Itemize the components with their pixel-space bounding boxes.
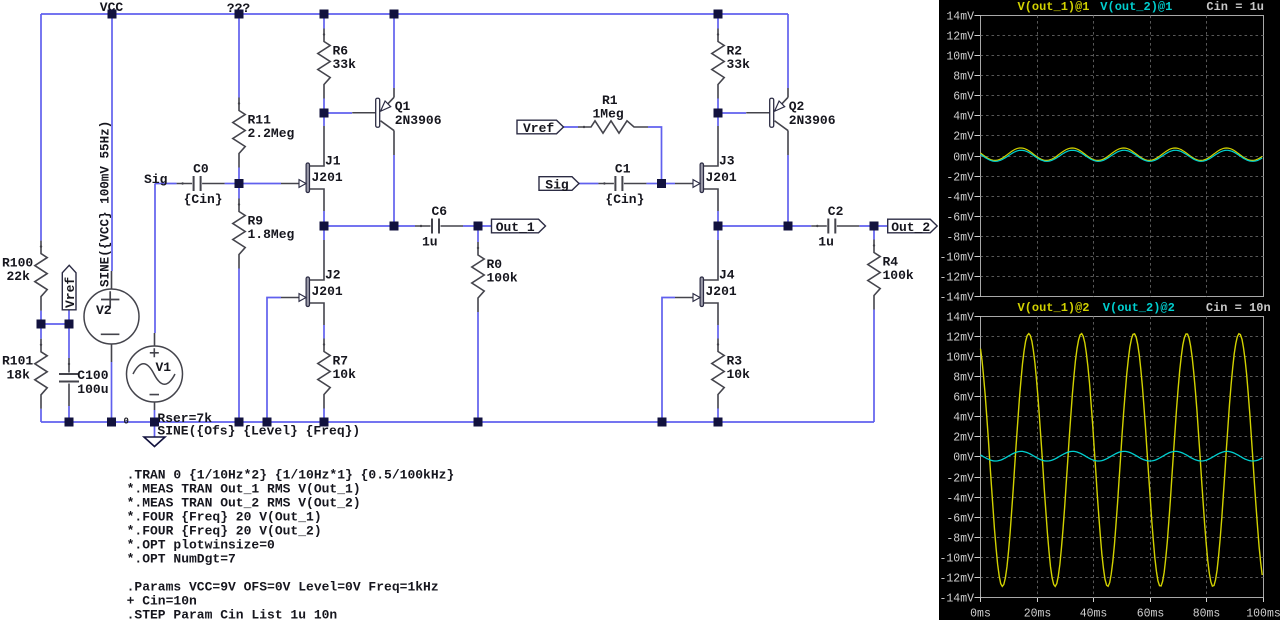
svg-text:80ms: 80ms [1193, 608, 1221, 620]
node J1 source / J2 drain [320, 222, 329, 231]
wire Q2 base [718, 112, 746, 114]
svg-text:33k: 33k [333, 57, 357, 72]
svg-text:J201: J201 [706, 284, 737, 299]
svg-text:100ms: 100ms [1246, 608, 1280, 620]
wire Sig corner to C0 and V1 [155, 184, 177, 334]
wire R4 bottom drop [873, 226, 875, 422]
wire Vref left flag stub [68, 310, 70, 324]
flag Vref (mid) [517, 120, 564, 134]
svg-text:-12mV: -12mV [939, 272, 974, 285]
node J3 source / J4 drain [714, 222, 723, 231]
capacitor C100 100u [68, 358, 70, 406]
wire C1 to node [646, 183, 661, 185]
svg-text:2mV: 2mV [953, 131, 974, 144]
svg-text:4mV: 4mV [953, 111, 974, 124]
trace V(out_2)@2 cyan ripple [981, 451, 1263, 461]
svg-text:.TRAN 0 {1/10Hz*2} {1/10Hz*1}: .TRAN 0 {1/10Hz*2} {1/10Hz*1} {0.5/100kH… [127, 467, 455, 482]
plot pane 2 border [981, 317, 1264, 598]
svg-text:-4mV: -4mV [946, 192, 974, 205]
resistor R0 100k [472, 242, 484, 312]
svg-text:*.OPT plotwinsize=0: *.OPT plotwinsize=0 [127, 537, 275, 552]
node Q1 collector / C6 [390, 222, 399, 231]
node R0 ground [474, 418, 483, 427]
wire J3 source to mid node [717, 211, 719, 226]
node C0 / R11 / R9 / J1 gate [235, 179, 244, 188]
svg-text:22k: 22k [7, 269, 31, 284]
svg-text:*.FOUR {Freq} 20 V(Out_1): *.FOUR {Freq} 20 V(Out_1) [127, 509, 322, 524]
wire J3 gate [662, 183, 676, 185]
resistor R9 1.8Meg [233, 199, 245, 269]
wire Q2 collector to mid rail [787, 155, 789, 226]
node C2 / Out_2 / R4 [870, 222, 879, 231]
svg-text:0mV: 0mV [953, 152, 974, 165]
node R3 ground [714, 418, 723, 427]
svg-text:10mV: 10mV [946, 352, 974, 365]
node rail / R2 [714, 10, 723, 19]
svg-text:C0: C0 [193, 161, 209, 176]
svg-text:-8mV: -8mV [946, 232, 974, 245]
node R100 / R101 [37, 320, 46, 329]
svg-text:C2: C2 [828, 204, 844, 219]
voltage source V2 SINE [111, 271, 113, 362]
svg-text:V(out_1)@2: V(out_1)@2 [1018, 301, 1090, 315]
resistor R4 100k [868, 240, 880, 310]
svg-text:Out_2: Out_2 [891, 220, 930, 235]
svg-text:-10mV: -10mV [939, 553, 974, 566]
wire R2 stubs / J3 drain [717, 14, 719, 126]
JFET J2 J201 [309, 240, 324, 325]
resistor R7 10k [318, 339, 330, 409]
wire J4 drain/source [717, 226, 719, 422]
svg-text:-10mV: -10mV [939, 252, 974, 265]
resistor R3 10k [712, 339, 724, 409]
node C100 ground [65, 418, 74, 427]
wire R0 drop [477, 226, 479, 422]
svg-text:100k: 100k [883, 268, 914, 283]
svg-text:1Meg: 1Meg [593, 106, 624, 121]
svg-text:Out_1: Out_1 [496, 220, 535, 235]
svg-text:Vref: Vref [63, 277, 78, 308]
svg-text:-6mV: -6mV [946, 513, 974, 526]
resistor R100 22k [35, 241, 47, 311]
svg-text:20ms: 20ms [1024, 608, 1052, 620]
svg-text:6mV: 6mV [953, 392, 974, 405]
capacitor C0 {Cin} [177, 183, 225, 185]
svg-text:Vref: Vref [523, 121, 554, 136]
node J2 gate ground [263, 418, 272, 427]
svg-text:-2mV: -2mV [946, 172, 974, 185]
svg-text:100u: 100u [77, 382, 108, 397]
svg-text:Sig: Sig [545, 178, 569, 193]
wire ??? column R11/R9 [238, 14, 240, 422]
svg-text:.STEP Param Cin List 1u 10n: .STEP Param Cin List 1u 10n [127, 607, 338, 620]
svg-text:12mV: 12mV [946, 332, 974, 345]
svg-text:+ Cin=10n: + Cin=10n [127, 593, 197, 608]
svg-text:-8mV: -8mV [946, 533, 974, 546]
svg-text:0mV: 0mV [953, 452, 974, 465]
svg-text:*.OPT NumDgt=7: *.OPT NumDgt=7 [127, 551, 236, 566]
resistor R101 18k [35, 339, 47, 409]
wire mid rail left [324, 225, 492, 227]
svg-text:C1: C1 [615, 161, 631, 176]
svg-text:6mV: 6mV [953, 91, 974, 104]
trace V(out_1)@1 yellow [981, 148, 1263, 160]
flag Out_1 [492, 219, 546, 233]
node C6 / Out_1 / R0 [474, 222, 483, 231]
svg-text:J4: J4 [719, 267, 735, 282]
node C1 / R1 / J3 gate [657, 179, 666, 188]
capacitor C1 {Cin} [598, 183, 646, 185]
svg-text:2N3906: 2N3906 [395, 113, 442, 128]
svg-text:J201: J201 [312, 170, 343, 185]
node V2 ground [107, 418, 116, 427]
svg-text:Q2: Q2 [789, 99, 805, 114]
svg-text:V2: V2 [96, 303, 112, 318]
wire C100 stubs [68, 324, 70, 422]
JFET J1 J201 [309, 126, 324, 211]
svg-text:60ms: 60ms [1137, 608, 1165, 620]
wire R6 stubs / J1 drain [323, 14, 325, 126]
node R6 / Q1 base [320, 109, 329, 118]
node rail / Q1 emitter [390, 10, 399, 19]
svg-text:J3: J3 [719, 153, 735, 168]
svg-text:.Params VCC=9V OFS=0V Level=0V: .Params VCC=9V OFS=0V Level=0V Freq=1kHz [127, 579, 439, 594]
svg-text:2.2Meg: 2.2Meg [248, 126, 295, 141]
svg-text:10k: 10k [727, 367, 751, 382]
svg-text:SINE({VCC} 100mV 55Hz): SINE({VCC} 100mV 55Hz) [99, 121, 113, 287]
svg-text:0ms: 0ms [970, 608, 991, 620]
svg-text:14mV: 14mV [946, 11, 974, 24]
node J4 gate ground [658, 418, 667, 427]
wire J2 drain/source [323, 226, 325, 422]
svg-text:10mV: 10mV [946, 51, 974, 64]
svg-text:4mV: 4mV [953, 412, 974, 425]
wire V1 bottom / ground stub [154, 410, 156, 437]
wire J1 gate [239, 183, 281, 185]
node R9 ground [235, 418, 244, 427]
svg-text:-2mV: -2mV [946, 473, 974, 486]
trace V(out_2)@1 cyan [981, 150, 1263, 161]
svg-text:{Cin}: {Cin} [184, 192, 223, 207]
svg-text:14mV: 14mV [946, 312, 974, 325]
capacitor C6 1u [415, 225, 463, 227]
svg-text:-12mV: -12mV [939, 573, 974, 586]
JFET J3 J201 [703, 126, 718, 211]
wire R100 node link [41, 323, 69, 325]
wire VCC to V2 [111, 14, 113, 271]
node ??? rail / R11 [235, 10, 244, 19]
svg-text:-14mV: -14mV [939, 292, 974, 305]
wire bottom ground rail [41, 421, 874, 423]
svg-text:C6: C6 [432, 204, 448, 219]
node VCC rail / V2 [108, 10, 117, 19]
svg-text:V(out_2)@1: V(out_2)@1 [1100, 0, 1172, 14]
wire Vref flag to R1 and down [563, 127, 662, 184]
wire Q2 emitter top [787, 14, 789, 88]
wire mid rail right [718, 225, 888, 227]
svg-text:*.FOUR {Freq} 20 V(Out_2): *.FOUR {Freq} 20 V(Out_2) [127, 523, 322, 538]
svg-text:8mV: 8mV [953, 372, 974, 385]
svg-text:100k: 100k [487, 271, 518, 286]
svg-text:Q1: Q1 [395, 99, 411, 114]
svg-text:33k: 33k [727, 57, 751, 72]
svg-text:SINE({Ofs} {Level} {Freq}): SINE({Ofs} {Level} {Freq}) [157, 423, 360, 438]
svg-text:J1: J1 [325, 153, 341, 168]
wire C0 to node [225, 183, 239, 185]
svg-text:0: 0 [124, 417, 129, 427]
waveform panel background [939, 0, 1280, 620]
svg-text:Cin = 1u: Cin = 1u [1206, 0, 1264, 14]
wire J2 gate loop [267, 298, 281, 423]
resistor R1 1Meg [578, 121, 648, 133]
svg-text:J201: J201 [706, 170, 737, 185]
svg-text:2mV: 2mV [953, 432, 974, 445]
svg-text:-14mV: -14mV [939, 593, 974, 606]
wire Sig flag to C1 [578, 183, 599, 185]
svg-text:2N3906: 2N3906 [789, 113, 836, 128]
svg-text:V(out_2)@2: V(out_2)@2 [1103, 301, 1175, 315]
ground symbol [144, 437, 165, 447]
plot pane 1 border [981, 16, 1264, 297]
svg-text:Sig: Sig [144, 172, 168, 187]
svg-text:1u: 1u [818, 234, 834, 249]
wire V2 minus to rail [111, 362, 113, 422]
svg-text:18k: 18k [7, 367, 31, 382]
trace V(out_1)@2 yellow sine [981, 334, 1263, 587]
svg-text:Cin = 10n: Cin = 10n [1206, 301, 1271, 315]
svg-text:10k: 10k [333, 367, 357, 382]
flag Sig (right) [539, 177, 579, 191]
svg-text:1.8Meg: 1.8Meg [248, 227, 295, 242]
svg-text:J2: J2 [325, 267, 341, 282]
node Vref / C100 [65, 320, 74, 329]
node rail / R6 [320, 10, 329, 19]
svg-text:*.MEAS TRAN Out_1 RMS V(Out_1): *.MEAS TRAN Out_1 RMS V(Out_1) [127, 481, 361, 496]
resistor R6 33k [318, 29, 330, 99]
svg-text:12mV: 12mV [946, 31, 974, 44]
plot pane 1 grid [981, 16, 1264, 297]
svg-text:40ms: 40ms [1080, 608, 1108, 620]
svg-text:V1: V1 [156, 360, 172, 375]
wire left rail (R100 branch) [40, 14, 42, 422]
svg-text:8mV: 8mV [953, 71, 974, 84]
wire Q1 base [324, 112, 352, 114]
node R2 / Q2 base [714, 109, 723, 118]
resistor R2 33k [712, 29, 724, 99]
svg-text:*.MEAS TRAN Out_2 RMS V(Out_2): *.MEAS TRAN Out_2 RMS V(Out_2) [127, 495, 361, 510]
wire J1 source to mid node [323, 211, 325, 226]
capacitor C2 1u [811, 225, 859, 227]
transistor Q1 2N3906 [352, 112, 376, 114]
node V1 ground [150, 418, 159, 427]
wire VCC top rail [41, 13, 788, 15]
JFET J4 J201 [703, 240, 718, 325]
node R7 ground [320, 418, 329, 427]
voltage source V1 signal [154, 333, 156, 410]
svg-text:-6mV: -6mV [946, 212, 974, 225]
svg-text:C100: C100 [77, 368, 108, 383]
svg-text:1u: 1u [422, 234, 438, 249]
wire J4 gate loop [662, 298, 675, 423]
resistor R11 2.2Meg [233, 98, 245, 168]
svg-text:J201: J201 [312, 284, 343, 299]
transistor Q2 2N3906 [746, 112, 770, 114]
wire Q1 emitter top [393, 14, 395, 88]
node Q2 collector / C2 [784, 222, 793, 231]
svg-text:-4mV: -4mV [946, 493, 974, 506]
flag Vref (left, vertical) [62, 265, 76, 310]
plot pane 2 grid [981, 317, 1264, 598]
svg-text:V(out_1)@1: V(out_1)@1 [1018, 0, 1090, 14]
wire Q1 collector to mid rail [393, 155, 395, 226]
flag Out_2 [888, 219, 938, 233]
svg-text:{Cin}: {Cin} [605, 192, 644, 207]
